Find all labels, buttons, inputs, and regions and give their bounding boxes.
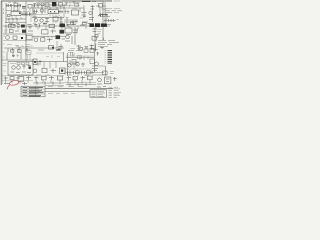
resistor R2 — [8, 15, 11, 17]
bottom comp row y70-75 — [65, 71, 94, 75]
title block text rows — [92, 91, 106, 96]
right col ticks — [93, 27, 98, 52]
wire v x61 — [60, 16, 62, 25]
small dashes right of bottom box — [110, 72, 114, 74]
wire y65 centre-bottom — [66, 60, 107, 75]
transistor Q4 — [34, 38, 38, 42]
U2 inner dots — [50, 11, 59, 12]
resistor box row — [10, 30, 34, 33]
terminal numbers left of dash column — [105, 51, 107, 64]
wire bus y36 centre — [32, 35, 66, 37]
text row y75 bottom band — [36, 74, 89, 76]
dark box — [60, 68, 66, 74]
border frame top — [1, 0, 112, 2]
right comps y66-76 — [92, 66, 107, 76]
small box x77-82 y55-59 — [78, 56, 82, 59]
right cluster — [98, 77, 117, 84]
connector box top right — [99, 4, 103, 8]
trunk x6 mid — [6, 26, 26, 42]
transistor Q1b — [34, 19, 37, 22]
transistor Q6 — [12, 66, 16, 70]
resistor row y23 — [9, 22, 19, 24]
wire v x92 — [92, 5, 94, 22]
wire bus y40.3 left — [3, 39, 33, 41]
resistor box row y21 — [71, 22, 91, 25]
tick crossing pair — [102, 6, 107, 9]
small box above subcircuit — [26, 51, 32, 55]
label inside — [10, 63, 16, 65]
marks — [51, 30, 57, 34]
transistor Q11 right — [95, 62, 99, 66]
cluster right col y44-51 — [90, 45, 96, 52]
wire bus vertical left — [5, 3, 7, 23]
wire bus y48 — [4, 47, 64, 49]
U1 top pins — [13, 10, 17, 12]
comps centre-right — [73, 62, 85, 67]
wire y69 centre-bottom — [64, 68, 92, 70]
text dashes centre y50 — [38, 49, 82, 52]
wire y2.5 right-centre — [64, 2, 80, 4]
dark blob right band seg1 — [90, 23, 95, 27]
red annotation tail — [7, 85, 10, 90]
wire row y22 — [5, 21, 26, 23]
middle cluster row — [34, 76, 63, 81]
row y72.5 risers — [70, 74, 86, 76]
wire v x45 — [44, 8, 46, 13]
capacitor C3 — [9, 18, 17, 20]
centre small text dashes — [48, 93, 75, 95]
table inner lines — [21, 86, 45, 97]
centre sparse bits y54-60 — [46, 55, 60, 58]
label 1,5-16V — [34, 1, 62, 4]
marks y13-16 left-centre — [34, 13, 37, 16]
marks under — [65, 36, 72, 44]
small box x74.5 top — [75, 3, 79, 6]
dark band right specks — [107, 24, 112, 26]
small box right — [95, 35, 98, 38]
comp right of U2 — [59, 10, 63, 14]
transistor Q5 left col — [66, 35, 70, 39]
relay box K1 — [14, 3, 18, 7]
dark cluster d — [60, 24, 66, 28]
wire bus y26 — [3, 25, 96, 27]
comps — [51, 69, 57, 74]
table text second runs — [29, 89, 40, 97]
comps inside — [22, 65, 31, 69]
resistor R5 cluster — [45, 18, 49, 23]
wire x57 x61 lower-mid — [57, 41, 61, 48]
dark blob cap C8 — [21, 25, 25, 28]
IC U2 box — [48, 10, 59, 14]
wire drops top-left U1 — [6, 6, 18, 12]
relay box K2 — [53, 17, 58, 21]
title block box right — [90, 90, 107, 97]
label text specks left — [4, 9, 29, 15]
wire trunk x63.5 — [63, 52, 65, 62]
capacitor row C2 — [23, 13, 31, 16]
comp cluster b — [17, 25, 32, 28]
comp cluster e — [67, 24, 86, 27]
transistor Q10 — [76, 63, 80, 67]
text dashes above rule centre — [48, 86, 83, 88]
left cluster row — [4, 76, 32, 81]
transistor Q8 — [33, 69, 37, 73]
main horizontal rule y88.5 — [45, 87, 113, 89]
component cluster mid-left — [33, 16, 37, 20]
IC U3 box — [72, 10, 79, 15]
dashes x84-88 y46-49 — [84, 47, 89, 49]
coil hatches x70-74 y52-57 — [71, 53, 74, 57]
cap cluster x81-87 — [82, 13, 87, 17]
resistor R1 box — [28, 5, 32, 9]
IC U1 box — [11, 12, 21, 16]
wire top row — [6, 5, 21, 7]
dark cluster — [56, 35, 61, 39]
resistor box — [13, 36, 17, 39]
bus y36 drops — [34, 36, 52, 38]
drops right-centre top — [66, 3, 78, 6]
cluster marks x64-70 — [65, 2, 70, 7]
transistor Q7 — [17, 66, 21, 70]
rule y85.8 centre — [45, 85, 64, 87]
component row y24 band — [8, 24, 14, 26]
bottom row inside — [11, 71, 32, 74]
wire trunk x103.5 — [102, 1, 104, 40]
comp row y20 right — [104, 19, 119, 23]
label specks — [8, 2, 19, 10]
comp cluster c — [34, 24, 55, 28]
wire bus y34 — [3, 33, 33, 35]
wire row y19 — [6, 18, 26, 20]
right box — [92, 37, 96, 41]
marks right of U5 — [66, 29, 78, 35]
subcircuit box — [8, 62, 33, 76]
wire bus y61.5 centre — [32, 61, 67, 63]
box inner tick + drops — [17, 53, 31, 60]
wire trunk x26 — [25, 2, 27, 61]
wire y80.5 left bottom — [2, 80, 33, 82]
left margin text — [3, 64, 7, 72]
left IC U5 — [65, 28, 72, 33]
U2 inner text — [50, 12, 58, 14]
label above U3 — [72, 8, 77, 10]
cluster x100 y14 — [98, 13, 108, 16]
bus y61.5 drops — [26, 60, 56, 69]
border frame left — [0, 1, 2, 85]
wire trunk x105 — [104, 2, 106, 26]
dark dash x60 y23.5 — [60, 23, 64, 25]
diode D1 cluster — [33, 9, 44, 14]
wire y2.6 top centre — [36, 2, 52, 4]
transformer circle x42.5 — [41, 3, 44, 6]
cluster centre-right y45-51 — [77, 45, 89, 51]
wire v x84 — [83, 8, 85, 18]
top frame marks — [92, 0, 120, 3]
wire v x75 — [74, 27, 76, 45]
transistor Q9 — [68, 64, 72, 68]
wire drops from bus — [34, 5, 64, 10]
dash near top — [57, 49, 61, 51]
text dashes centre-right y48-52 — [68, 49, 81, 53]
coil L1 — [45, 3, 49, 7]
table text rows — [23, 88, 44, 96]
wire trunk x67.5 — [67, 53, 69, 76]
wire v x42 — [41, 8, 43, 14]
text row right y8.5 — [105, 8, 121, 10]
cluster marks x72-78 — [73, 2, 78, 5]
wire y8 right — [62, 7, 84, 9]
text row right y11 — [105, 11, 123, 13]
wire row y17.5 — [38, 17, 64, 19]
capacitor C0 — [19, 4, 21, 8]
left border ticks — [3, 36, 5, 57]
box small left of centre — [33, 59, 37, 65]
bottom band drops — [6, 80, 91, 85]
inner small boxes row — [17, 63, 29, 65]
text specks — [7, 45, 30, 46]
box right y59 — [90, 59, 95, 64]
rule y82.7 right — [64, 82, 96, 84]
transformer T2 core dark — [52, 2, 56, 6]
inner dark tick — [29, 67, 31, 69]
resistor box — [41, 38, 45, 41]
title block divider — [96, 90, 98, 97]
wire bus y75.8 top of bottom band — [2, 75, 64, 77]
transformer T1 — [7, 4, 12, 7]
red annotation circle — [9, 80, 19, 86]
right dash column (terminal list) — [108, 51, 113, 64]
transistor Q3 — [6, 36, 10, 40]
dark blob right band seg2 — [95, 23, 100, 27]
transistor Q1 — [40, 19, 43, 22]
connector cluster x82-96 y48-53 — [84, 48, 94, 53]
right-centre cluster row — [67, 76, 93, 81]
border frame left inner — [2, 2, 4, 84]
wire y56 centre-right — [66, 55, 94, 57]
ticks y17-19 centre-right — [66, 17, 84, 20]
small marks above title strip — [97, 86, 106, 89]
box U4 — [42, 30, 49, 34]
bus y26 drops — [10, 26, 86, 30]
wire ticks row y17 left — [9, 17, 21, 22]
specks row y23 centre — [33, 22, 45, 25]
dark cluster — [60, 30, 65, 34]
text block right y40-46 — [98, 41, 119, 45]
comp cluster a — [6, 25, 15, 29]
choke L2 — [59, 3, 63, 7]
wire bus y57.5 right — [66, 57, 94, 59]
trimmer P1 — [34, 4, 37, 8]
U1 pin dot — [19, 13, 20, 14]
marks right of Q2 — [89, 18, 94, 20]
second bottom row y82-85 — [4, 82, 102, 87]
box with marks — [27, 35, 33, 39]
handwriting marks y44-48 — [17, 46, 33, 48]
wire y20 centre-right — [64, 19, 78, 21]
wire x33 column — [32, 5, 64, 18]
wire y14.5 centre — [32, 14, 48, 16]
legend text block far right — [109, 87, 122, 97]
wire bus y60 left — [2, 59, 34, 61]
parts table box — [21, 86, 45, 97]
coil ticks x37 x39 — [37, 3, 39, 6]
wire right box feed — [96, 6, 110, 19]
resistor box — [42, 68, 47, 72]
text specks — [4, 30, 8, 32]
dark dot — [21, 37, 23, 39]
capacitor C1 pair — [22, 6, 26, 8]
label TELEFUNKEN dark dash — [82, 0, 91, 2]
ground symbol — [12, 56, 15, 57]
marks — [39, 60, 43, 65]
U2 bottom pins — [50, 15, 59, 17]
marks — [47, 38, 53, 42]
vertical drops — [7, 52, 21, 60]
cluster centre y45-50 — [49, 46, 64, 50]
wire row y14.5 — [21, 14, 31, 16]
left col marks y49-58 — [93, 50, 99, 73]
bits — [62, 38, 66, 40]
dark blob right band seg3 — [101, 24, 107, 27]
component row y21 — [70, 21, 88, 25]
wire row y8 — [32, 7, 62, 9]
small comp right y47 — [100, 47, 104, 50]
transistor Q2 — [89, 11, 92, 14]
resistor box centre y60 — [72, 60, 76, 64]
second rule y91.5 — [45, 90, 90, 92]
hanging comps — [8, 48, 30, 52]
wire y53 centre — [36, 52, 64, 54]
wire top bus — [32, 4, 67, 6]
wire y5.5 right-centre — [64, 5, 80, 7]
extra vertical connectors left half — [12, 6, 61, 23]
wire y72.5 right col — [92, 72, 104, 74]
text right y29-31 — [98, 30, 102, 34]
wire x67 top join — [64, 5, 84, 26]
drops y56-60 — [80, 56, 88, 60]
cap C5 — [60, 19, 64, 22]
text block 4th row + left bits — [95, 38, 109, 47]
ticks near x92 top — [91, 7, 95, 10]
ticks x65-69 y9-14 — [65, 10, 70, 15]
